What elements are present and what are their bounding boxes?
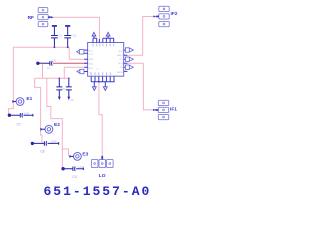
port P1 (left, dual pin) — [77, 50, 84, 54]
svg-text:C6: C6 — [70, 98, 74, 102]
svg-text:E1: E1 — [26, 96, 32, 102]
IC U1 body — [88, 43, 124, 77]
svg-text:GND6: GND6 — [117, 72, 124, 74]
svg-text:NC2: NC2 — [119, 51, 124, 53]
svg-text:C10: C10 — [72, 33, 77, 37]
svg-text:IF2: IF2 — [171, 11, 178, 17]
svg-text:NC3: NC3 — [119, 63, 124, 65]
wire E3 feed — [47, 78, 63, 168]
capacitor C7 chain (E1) — [8, 113, 33, 118]
port P2 (left, pin 72.3) — [77, 69, 84, 73]
svg-text:C5: C5 — [62, 87, 66, 91]
U1 top pin stubs and buses — [93, 36, 114, 42]
wire C4 junction down to pink bus — [42, 63, 44, 78]
power arrow VP2 — [106, 32, 110, 36]
capacitor C1 (shunt near RF) — [51, 26, 58, 47]
svg-text:C9: C9 — [58, 33, 62, 37]
svg-text:1206: 1206 — [51, 140, 57, 144]
svg-text:CMP: CMP — [89, 59, 94, 61]
wire red segment C4 to U1 pin — [53, 62, 88, 64]
jack E1 — [16, 98, 24, 106]
svg-text:1206: 1206 — [78, 165, 84, 169]
U1 inside pin names right — [117, 51, 124, 74]
jack E2 — [45, 125, 53, 133]
svg-text:RF: RF — [28, 15, 34, 21]
capacitor C9 chain (E3) — [62, 167, 84, 172]
connector IF1 — [158, 100, 168, 119]
svg-text:C4: C4 — [72, 175, 76, 179]
U1 left pin stubs — [84, 50, 88, 71]
capacitor C2 (shunt near RF) — [64, 26, 71, 47]
svg-text:LO: LO — [99, 173, 106, 179]
svg-text:E3: E3 — [82, 151, 88, 157]
wire net bus y47.3 with left drop to E1 — [9, 47, 70, 114]
svg-text:NC1: NC1 — [89, 51, 94, 53]
svg-text:1206: 1206 — [24, 112, 30, 116]
wire branch to E3 jack — [62, 149, 68, 156]
connector RF — [38, 8, 48, 27]
junction dots — [54, 46, 56, 48]
connector IF2 — [159, 6, 169, 26]
U1 inside pin names left — [89, 51, 94, 75]
capacitor C6 (under U1, to gnd) — [66, 78, 72, 96]
ground arrow G1 — [92, 87, 96, 91]
wire U1 right pin to IF2 — [127, 16, 154, 55]
svg-text:C41: C41 — [52, 59, 57, 63]
wire into U1 pin (58.8) — [69, 58, 87, 60]
U1 bottom pin stubs and bus — [91, 76, 115, 87]
svg-text:GND7: GND7 — [117, 55, 124, 57]
capacitor C4 (series into U1) — [37, 61, 53, 66]
wire U1 pin 67.8 down to pink bus — [64, 67, 87, 78]
ground arrow G2 — [103, 87, 107, 91]
svg-text:IF1: IF1 — [170, 106, 177, 112]
wire RF net from connector to U1 top — [52, 17, 100, 42]
U1 right pin stubs — [124, 50, 128, 71]
wire U1 right pin to IF1 — [127, 63, 156, 110]
power arrow VP1 — [92, 32, 96, 36]
jack E3 — [74, 153, 82, 161]
svg-text:IN-D: IN-D — [89, 63, 94, 65]
port P5 (right, IF1 pin 67) — [125, 65, 133, 69]
port P4 (right, IF2 pin 59) — [125, 57, 133, 61]
capacitor C8 chain (E2) — [31, 141, 59, 146]
svg-text:651-1557-A0: 651-1557-A0 — [44, 184, 152, 199]
wire pink bus under U1 — [35, 77, 69, 79]
svg-text:C8: C8 — [40, 150, 44, 154]
svg-text:E2: E2 — [54, 122, 60, 128]
connector LO — [91, 159, 113, 167]
capacitor C5 (under U1, to gnd) — [56, 78, 62, 96]
svg-text:IF-: IF- — [120, 67, 123, 69]
svg-text:C7: C7 — [17, 123, 21, 127]
wire E2 feed — [35, 78, 42, 143]
wire U1 bottom bus to LO — [99, 82, 102, 157]
svg-text:IN-D: IN-D — [89, 68, 94, 70]
U1 inside top/bottom tiny rotated labels — [91, 44, 114, 75]
port P3 (right, pin 51) — [125, 48, 133, 52]
